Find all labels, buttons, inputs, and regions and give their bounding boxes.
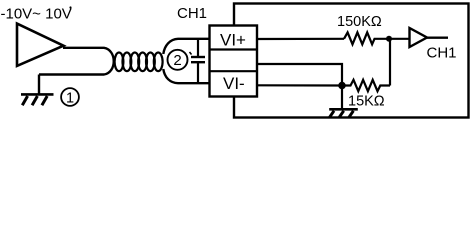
- svg-text:1: 1: [66, 90, 74, 106]
- svg-text:VI+: VI+: [220, 31, 246, 50]
- svg-text:CH1: CH1: [177, 5, 207, 22]
- svg-text:150KΩ: 150KΩ: [337, 14, 382, 30]
- svg-text:VI-: VI-: [223, 74, 245, 93]
- svg-text:-10V~ 10V: -10V~ 10V: [1, 6, 72, 23]
- svg-text:15KΩ: 15KΩ: [348, 94, 385, 110]
- svg-text:2: 2: [173, 52, 181, 69]
- svg-text:CH1: CH1: [427, 45, 457, 62]
